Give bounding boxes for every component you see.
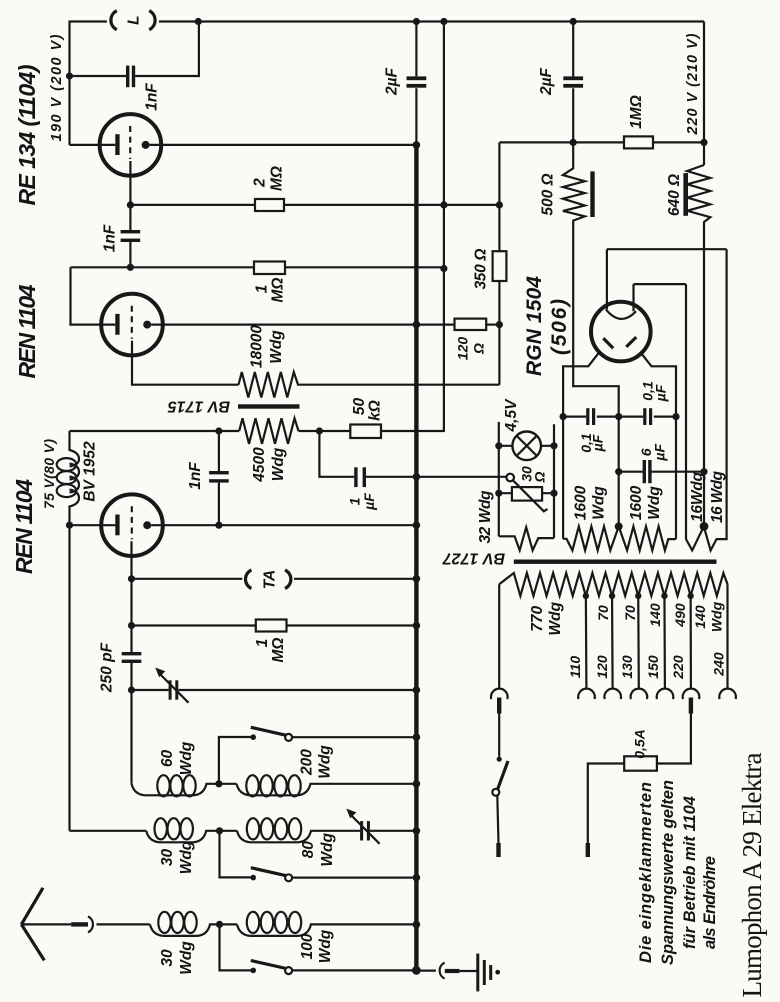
- svg-text:BV 1715: BV 1715: [167, 398, 230, 415]
- node gridline-2M junction: [440, 201, 447, 208]
- wire gridleak row y625: [132, 624, 417, 626]
- wire lamp branch left: [498, 422, 500, 536]
- label 75V(80V): [41, 439, 57, 509]
- svg-text:für Betrieb mit 1104: für Betrieb mit 1104: [681, 796, 699, 949]
- svg-text:Wdg: Wdg: [178, 941, 195, 975]
- node 350-120 junction: [496, 321, 503, 328]
- plug pin cord-left: [496, 843, 500, 857]
- node RE134 grid junction: [127, 201, 134, 208]
- winding 32 Wdg: [477, 490, 554, 550]
- node screen-2uF junction: [570, 139, 577, 146]
- svg-text:Wdg: Wdg: [646, 486, 663, 520]
- winding HT 1600+1600 Wdg: [563, 485, 676, 550]
- svg-text:1600: 1600: [628, 485, 645, 520]
- node junction 1nF/1M: [127, 264, 134, 271]
- svg-text:80: 80: [300, 841, 317, 859]
- svg-text:Wdg: Wdg: [709, 601, 725, 632]
- svg-text:1: 1: [254, 285, 271, 294]
- node center-cap junction: [615, 413, 622, 420]
- svg-text:0,5A: 0,5A: [632, 729, 648, 759]
- svg-text:150: 150: [645, 655, 661, 679]
- label RGN 1504 (506): [523, 276, 571, 376]
- wire plate row y267: [71, 266, 444, 268]
- coil 30 Wdg antenna: [150, 912, 237, 975]
- wire RGN filament lead left: [607, 249, 727, 309]
- jack earth socket: [419, 963, 445, 979]
- capacitor 2uF right: [538, 22, 583, 143]
- note text: [637, 780, 719, 965]
- winding primary 770 Wdg: [499, 573, 727, 636]
- terminal arc 110: [578, 689, 595, 700]
- svg-text:2µF: 2µF: [538, 67, 555, 96]
- node junction speaker/cap: [66, 72, 73, 79]
- node rowA bus junction: [413, 780, 421, 788]
- terminal arc 130: [631, 689, 648, 700]
- node coil rowC tap: [216, 921, 223, 928]
- lamp 4,5V: [499, 398, 554, 460]
- winding 16+16 Wdg: [686, 249, 727, 550]
- svg-text:220 V (210 V): 220 V (210 V): [685, 33, 701, 135]
- core bar BV1727: [442, 550, 717, 567]
- capacitor 0,1uF right: [619, 381, 676, 425]
- node coil rowB tap: [216, 827, 223, 834]
- svg-text:BV 1727: BV 1727: [442, 550, 505, 567]
- node trimmer row left junction: [128, 686, 135, 693]
- svg-text:70: 70: [622, 605, 638, 621]
- wire HT centre tap: [618, 417, 620, 527]
- svg-text:350 Ω: 350 Ω: [473, 249, 490, 290]
- wire RGN anode lead left: [563, 353, 599, 539]
- switch rowB: [220, 831, 415, 882]
- wire B+ right drop: [703, 22, 705, 166]
- node RE134 cathode to bus: [413, 141, 421, 149]
- resistor 1MOhm top: [624, 95, 653, 148]
- node REN1 cathode bus: [413, 321, 421, 329]
- svg-text:30: 30: [159, 949, 176, 967]
- svg-text:75 V(80 V): 75 V(80 V): [41, 439, 57, 509]
- svg-text:Wdg: Wdg: [178, 840, 195, 874]
- transformer winding 18000 Wdg: [239, 325, 500, 398]
- terminal arc 220: [683, 689, 700, 700]
- coil 30 Wdg: [146, 818, 237, 874]
- switch mains: [492, 757, 508, 843]
- terminal arc 240: [719, 689, 736, 700]
- node gridleak bus junction: [413, 622, 421, 630]
- node coil rowA tap: [215, 780, 222, 787]
- svg-text:Ω: Ω: [471, 343, 487, 355]
- svg-text:µF: µF: [590, 434, 606, 452]
- capacitor 2uF left: [384, 22, 427, 145]
- node trimmer1 bus junction: [413, 686, 421, 694]
- plug pin mains-left: [497, 698, 501, 757]
- transformer winding 4500 Wdg: [239, 418, 298, 482]
- node 16Wdg tap dot: [700, 522, 709, 531]
- svg-text:4500: 4500: [251, 447, 268, 483]
- trimmer capacitor 1: [155, 668, 188, 703]
- node anodeR-cap junction: [672, 413, 679, 420]
- svg-text:32 Wdg: 32 Wdg: [477, 490, 494, 544]
- wire B+ rail top: [69, 20, 705, 22]
- svg-text:1nF: 1nF: [144, 83, 161, 111]
- node rail-speaker junction: [195, 18, 202, 25]
- svg-text:MΩ: MΩ: [270, 277, 287, 302]
- svg-text:RE 134 (1104): RE 134 (1104): [14, 65, 40, 206]
- svg-text:MΩ: MΩ: [270, 637, 287, 662]
- svg-text:1MΩ: 1MΩ: [628, 95, 645, 129]
- plug pin 220: [657, 698, 693, 764]
- svg-text:MΩ: MΩ: [269, 166, 286, 191]
- svg-text:1600: 1600: [573, 485, 590, 520]
- node anodeL-cap junction: [560, 413, 567, 420]
- wire cap branch: [70, 22, 199, 77]
- svg-text:Wdg: Wdg: [319, 832, 336, 866]
- svg-text:30: 30: [159, 849, 176, 867]
- resistor 350 Ohm: [473, 142, 507, 384]
- svg-text:Ω: Ω: [532, 471, 548, 483]
- svg-text:70: 70: [595, 605, 611, 621]
- coil 200 Wdg: [237, 745, 415, 797]
- node rheo left: [495, 490, 502, 497]
- label REN1104 first: [14, 284, 40, 378]
- svg-text:4,5V: 4,5V: [503, 398, 520, 433]
- resistor 640 Ohm: [666, 165, 710, 526]
- node detector anode junction: [66, 522, 73, 529]
- node rowC bus junction: [413, 921, 421, 929]
- svg-text:Lumophon A 29 Elektra: Lumophon A 29 Elektra: [737, 752, 767, 997]
- svg-text:Wdg: Wdg: [317, 929, 334, 963]
- label 220V(210V): [685, 33, 701, 135]
- node TA-bus junction: [413, 575, 421, 583]
- resistor 120 Ohm: [455, 319, 500, 361]
- coil 60 Wdg: [132, 741, 237, 796]
- svg-text:110: 110: [567, 656, 583, 679]
- svg-text:(506): (506): [548, 299, 571, 355]
- svg-text:RGN 1504: RGN 1504: [523, 276, 546, 376]
- node rheo right: [550, 490, 557, 497]
- node 6uF-left junction: [615, 468, 622, 475]
- svg-text:500 Ω: 500 Ω: [540, 173, 557, 215]
- node tap 120: [609, 593, 615, 599]
- node bus bottom junction: [412, 966, 421, 975]
- node screen-640 junction: [700, 139, 707, 146]
- node det cathode bus: [413, 521, 421, 529]
- capacitor 1nF detector: [187, 431, 229, 525]
- svg-text:Wdg: Wdg: [547, 601, 564, 635]
- trimmer capacitor 2: [346, 809, 414, 844]
- switch rowC: [220, 924, 417, 974]
- rheostat 30 Ohm: [499, 466, 554, 511]
- svg-text:770: 770: [529, 605, 546, 631]
- wire RGN anode lead right: [641, 353, 676, 539]
- wire lamp branch right: [553, 424, 555, 538]
- svg-text:250 pF: 250 pF: [99, 642, 116, 693]
- resistor 500 Ohm: [540, 142, 619, 416]
- node gridline-1M junction: [440, 265, 447, 272]
- node tap 110: [583, 593, 589, 599]
- node 1uF-bus junction: [413, 473, 421, 481]
- node switchB bus junction: [413, 874, 421, 882]
- plug pin antenna: [71, 922, 88, 926]
- svg-text:640 Ω: 640 Ω: [666, 174, 683, 216]
- svg-text:200: 200: [299, 749, 316, 776]
- svg-text:120: 120: [594, 655, 610, 679]
- svg-text:als Endröhre: als Endröhre: [701, 856, 719, 949]
- node junction 1uF top: [316, 427, 323, 434]
- node 6uF-right junction: [700, 468, 707, 475]
- svg-text:190 V (200 V): 190 V (200 V): [49, 34, 65, 141]
- wire chassis bus: [414, 145, 418, 971]
- svg-text:100: 100: [299, 933, 316, 959]
- wire antenna-coil riser: [70, 830, 147, 832]
- wire tap lines: [499, 584, 727, 688]
- svg-text:REN 1104: REN 1104: [11, 479, 37, 574]
- svg-text:16 Wdg: 16 Wdg: [709, 470, 726, 523]
- label REN1104 second: [11, 479, 37, 574]
- svg-text:2: 2: [252, 178, 269, 188]
- speaker jack L: [111, 11, 155, 30]
- label 190V(200V): [49, 34, 65, 141]
- capacitor 1uF: [319, 431, 506, 511]
- wire trimmer row y690: [132, 689, 417, 691]
- svg-text:490: 490: [672, 603, 688, 628]
- ground: [476, 954, 500, 992]
- capacitor 6uF: [619, 444, 704, 484]
- svg-text:18000: 18000: [249, 325, 266, 368]
- wire AVC row y431: [70, 22, 444, 432]
- svg-text:1nF: 1nF: [102, 224, 119, 252]
- tube REN1104 second: [70, 494, 417, 690]
- label RE134(1104): [14, 65, 40, 206]
- node HT tap dot: [615, 522, 623, 530]
- node rail-gridline junction: [440, 18, 447, 25]
- svg-text:60: 60: [159, 750, 176, 768]
- svg-text:Wdg: Wdg: [317, 745, 334, 779]
- capacitor 250pF: [99, 642, 142, 693]
- jack antenna socket: [88, 916, 150, 932]
- node trimmer2 bus junction: [413, 827, 421, 835]
- svg-text:Wdg: Wdg: [268, 330, 285, 364]
- node det cathode 1nF junction: [215, 522, 222, 529]
- svg-text:140: 140: [647, 603, 663, 627]
- svg-text:µF: µF: [653, 384, 669, 402]
- resistor 50kOhm: [350, 398, 383, 438]
- resistor 2MOhm: [252, 166, 286, 211]
- coil 100 Wdg: [237, 912, 414, 963]
- label 770 tap counts: [595, 601, 725, 632]
- core bar BV1715: [167, 398, 300, 415]
- svg-text:µF: µF: [361, 493, 377, 511]
- caption Lumophon A 29 Elektra: [737, 752, 767, 997]
- resistor 1MOhm gridleak: [254, 620, 287, 663]
- plug pin cord-right: [586, 843, 590, 857]
- wire speaker left drop: [68, 22, 70, 145]
- node 350-gridrow junction: [496, 201, 503, 208]
- switch rowA: [219, 727, 414, 784]
- node junction 1nF3 top: [215, 427, 222, 434]
- tube RE134: [70, 114, 417, 205]
- svg-text:Die eingeklammerten: Die eingeklammerten: [637, 782, 655, 963]
- resistor 1MOhm: [254, 262, 287, 303]
- node lamp right: [550, 442, 557, 449]
- tube RGN1504: [591, 302, 651, 362]
- terminal arc mains-left: [491, 689, 508, 700]
- svg-text:kΩ: kΩ: [367, 400, 384, 421]
- svg-text:1nF: 1nF: [187, 462, 204, 490]
- tube REN1104 first: [71, 267, 455, 384]
- svg-text:Spannungswerte gelten: Spannungswerte gelten: [659, 780, 677, 965]
- node rail-C2u2 junction: [570, 18, 577, 25]
- svg-text:140: 140: [692, 605, 708, 629]
- terminal arc 150: [657, 689, 674, 700]
- node TA-grid junction: [128, 575, 135, 582]
- svg-text:TA: TA: [262, 570, 279, 590]
- fuse 0,5A: [588, 729, 657, 843]
- svg-text:Wdg: Wdg: [591, 486, 608, 520]
- svg-text:220: 220: [670, 655, 686, 680]
- svg-text:BV 1952: BV 1952: [82, 441, 99, 502]
- choke BV1952: [57, 431, 99, 831]
- svg-text:REN 1104: REN 1104: [14, 284, 40, 378]
- node tap 130: [635, 593, 641, 599]
- wire detector grid drop: [130, 690, 132, 784]
- svg-text:Wdg: Wdg: [270, 447, 287, 481]
- svg-text:1: 1: [254, 639, 271, 648]
- svg-text:130: 130: [619, 655, 635, 679]
- antenna: [21, 888, 71, 961]
- capacitor 0,1uF left: [563, 408, 619, 453]
- svg-text:µF: µF: [652, 444, 668, 462]
- node switchA bus junction: [413, 733, 421, 741]
- label tap voltages: [567, 652, 726, 680]
- coil 80 Wdg: [237, 818, 360, 866]
- node lamp left: [495, 442, 502, 449]
- svg-text:Wdg: Wdg: [178, 741, 195, 775]
- svg-text:240: 240: [711, 652, 727, 677]
- capacitor 1nF coupling: [102, 205, 141, 267]
- wire RGN filament lead right: [634, 284, 687, 311]
- svg-text:2µF: 2µF: [384, 67, 401, 96]
- capacitor 1nF speaker: [126, 66, 161, 111]
- node tap 220: [687, 593, 693, 599]
- node tap 150: [661, 593, 667, 599]
- svg-text:L: L: [125, 15, 142, 24]
- wire screen row y142: [499, 141, 704, 143]
- terminal arc 120: [604, 689, 621, 700]
- svg-text:16Wdg: 16Wdg: [689, 471, 706, 522]
- jack TA: [132, 570, 417, 590]
- wire grid row y205: [130, 204, 499, 206]
- svg-text:120: 120: [455, 337, 471, 361]
- node rail-C2u1 junction: [413, 18, 420, 25]
- node gridleak left junction: [128, 622, 135, 629]
- plug pin earth: [445, 969, 477, 973]
